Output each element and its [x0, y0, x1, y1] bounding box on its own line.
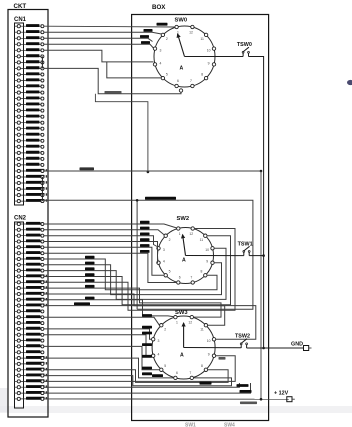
svg-text:TSW1: TSW1: [238, 241, 253, 247]
svg-text:10: 10: [205, 248, 209, 252]
connector CN2 pin 21: [15, 339, 44, 343]
box BOX outline: [132, 15, 269, 421]
connector CN1 pin 5: [15, 48, 44, 52]
connector CN2 pin 15: [15, 304, 48, 308]
wire CN1 pin3 to SW0: [44, 38, 153, 41]
wire CN1 pin2 to SW0 terminal 2: [44, 32, 162, 34]
connector CN2 pin 18: [15, 321, 44, 325]
svg-text:CN2: CN2: [14, 216, 27, 222]
svg-text:5: 5: [166, 73, 168, 77]
svg-text:7: 7: [190, 276, 192, 280]
connector CN2 pin 17: [15, 315, 44, 319]
svg-text:2: 2: [169, 238, 171, 242]
connector CN1 pin 4: [15, 42, 44, 46]
wire label: [80, 167, 95, 170]
connector CN1 pin 14: [15, 103, 44, 107]
wire CN2 pin6 to SW2 terminal 6: [44, 253, 177, 282]
svg-text:A: A: [180, 353, 184, 359]
connector CN2 outline: [15, 222, 24, 408]
wire label: [142, 326, 152, 329]
label A of SW3: [180, 353, 184, 359]
svg-text:1: 1: [179, 232, 181, 236]
wire label: [140, 238, 150, 241]
label SW0: [175, 18, 188, 24]
wire CN1 pin25 to +12V rail: [44, 170, 261, 172]
wire CN2 to SW2 terminal 8 wraparound: [44, 259, 217, 290]
wire label: [85, 279, 95, 282]
svg-text:TSW0: TSW0: [237, 42, 252, 48]
label A of SW2: [182, 258, 186, 264]
svg-text:12: 12: [189, 31, 193, 35]
svg-text:SW1: SW1: [185, 423, 196, 427]
connector CN2 pin 11: [15, 280, 48, 284]
junction at 147.9,171.9: [147, 171, 150, 174]
wire label: [140, 250, 150, 253]
wire label: [140, 227, 150, 230]
wire label: [74, 302, 90, 305]
connector CN2 pin 19: [15, 327, 44, 331]
wire label: [237, 384, 249, 387]
connector CN1 pin 20: [15, 139, 44, 143]
connector CN2 pin 30: [15, 391, 48, 395]
svg-text:2: 2: [166, 37, 168, 41]
wire CN2 pin1 to SW2 terminal 1: [44, 224, 177, 228]
wire label: [140, 233, 150, 236]
circuit block CKT outline: [8, 10, 48, 418]
svg-text:11: 11: [200, 37, 204, 41]
wire CN2 pin31 to +12V: [44, 398, 289, 400]
wire CN2 pin14 to SW3 terminal 1: [44, 300, 174, 317]
svg-text:6: 6: [177, 79, 179, 83]
wire label: [142, 355, 152, 358]
wire label: [140, 244, 150, 247]
svg-text:6: 6: [179, 276, 181, 280]
label BOX: [152, 4, 166, 11]
connector CN1 pin 29: [15, 193, 48, 197]
CN1 bus wire pins 6-8: [41, 56, 43, 68]
connector CN1 pin 27: [15, 181, 48, 185]
wire label: [200, 382, 212, 385]
svg-text:4: 4: [163, 260, 165, 264]
label CN1: [14, 17, 27, 23]
junction at 261,171.9: [260, 170, 263, 173]
wire CN2 pin22 to SW3 terminal 5: [44, 346, 160, 369]
wire label: [157, 23, 168, 26]
svg-text:TSW2: TSW2: [235, 334, 250, 340]
svg-text:5: 5: [164, 364, 166, 368]
junction +12V rail: [260, 398, 263, 401]
connector CN2 pin 9: [15, 269, 44, 273]
svg-text:11: 11: [200, 327, 204, 331]
connector CN1 pin 19: [15, 133, 44, 137]
wire label: [142, 343, 152, 346]
wire label: [85, 267, 95, 270]
connector CN1 pin 12: [15, 91, 44, 95]
toggle switch TSW0: [237, 42, 252, 56]
connector CN1 outline: [15, 23, 24, 205]
wire SW2 common to TSW1: [186, 255, 244, 257]
connector CN2 pin 27: [15, 374, 48, 378]
wire CN1 bus pins26-30 long: [44, 200, 253, 309]
vertical bus segment: [136, 200, 138, 309]
connector CN2 pin 24: [15, 356, 48, 360]
scan artifact band: [0, 406, 352, 413]
junction at 137.1,200.3: [136, 199, 139, 202]
junction TSW1 switch net: [262, 254, 265, 257]
connector CN2 pin 14: [15, 298, 48, 302]
wire SW0 common to TSW0: [185, 56, 244, 58]
svg-text:3: 3: [159, 48, 161, 52]
svg-text:SW3: SW3: [175, 310, 188, 316]
connector CN1 pin 16: [15, 115, 44, 119]
wire label: [140, 35, 149, 38]
connector CN2 pin 1: [15, 222, 44, 226]
connector CN1 pin 11: [15, 84, 44, 88]
wire CN1 pin5 to SW0 terminal 4: [44, 50, 153, 62]
svg-text:12: 12: [188, 321, 192, 325]
svg-text:A: A: [182, 258, 186, 264]
wire label: [240, 390, 252, 393]
wire CN2 pin15 to SW3 terminal 10: [44, 306, 256, 340]
label CN2: [14, 216, 27, 222]
svg-text:12: 12: [189, 232, 193, 236]
svg-text:8: 8: [201, 73, 203, 77]
label +12V: [274, 391, 289, 397]
wire CN2 pin26 to SW3 terminal 8: [44, 370, 228, 383]
wire label: [240, 402, 257, 405]
connector CN1 pin 10: [15, 78, 44, 82]
connector CN1 pin 9: [15, 72, 44, 76]
connector CN1 pin 3: [15, 36, 44, 40]
junction switch net at GND wire: [262, 347, 265, 350]
wire branch to SW0 terminal 5: [107, 62, 162, 78]
label A of SW0: [180, 66, 184, 72]
wire CN2 pin24 to SW3 terminal 6: [44, 358, 174, 378]
wire label: [145, 197, 176, 200]
connector CN2 pin 3: [15, 234, 44, 238]
stray blue mark: [347, 80, 352, 85]
wire label: [85, 297, 95, 300]
connector CN2 pin 5: [15, 245, 44, 249]
connector CN1 pin 18: [15, 127, 44, 131]
svg-text:SW4: SW4: [224, 423, 235, 427]
connector CN1 pin 21: [15, 145, 44, 149]
svg-text:+ 12V: + 12V: [274, 391, 289, 397]
+12V vertical rail: [260, 171, 262, 399]
wire CN2 pin13 to SW3 terminal 11: [44, 294, 225, 325]
svg-text:SW2: SW2: [177, 216, 190, 222]
wire CN2 pin5 to SW2 terminal 5: [44, 247, 164, 275]
connector CN2 pin 16: [15, 309, 44, 313]
wire TSW1 to switch net: [249, 255, 263, 257]
connector CN2 pin 8: [15, 263, 44, 267]
connector CN2 pin 20: [15, 333, 44, 337]
connector CN2 pin 13: [15, 292, 48, 296]
wire label: [85, 262, 95, 265]
svg-text:1: 1: [176, 321, 178, 325]
GND terminal: [304, 346, 312, 351]
rotary switch SW0: [153, 25, 215, 87]
wire CN2 pin2 to SW2 terminal 2: [44, 230, 164, 235]
svg-text:A: A: [180, 66, 184, 72]
svg-text:8: 8: [201, 364, 203, 368]
wire CN2 pin20 to SW3 terminal 4: [44, 335, 152, 356]
svg-text:4: 4: [159, 61, 161, 65]
connector CN1 pin 30: [15, 199, 48, 203]
connector CN2 pin 26: [15, 368, 48, 372]
wire CN2 pin12 to SW3 terminal 12: [44, 288, 221, 317]
faint text: [224, 423, 235, 427]
wire label: [142, 367, 152, 370]
svg-text:10: 10: [207, 48, 211, 52]
rotary switch SW3: [152, 315, 216, 379]
wire CN2 pin3 to SW2 terminal 3: [44, 236, 157, 247]
wire label: [142, 332, 152, 335]
connector CN1 pin 7: [15, 60, 44, 64]
connector CN2 pin 2: [15, 228, 44, 232]
wire CN1 pin4 to SW0 terminal 3: [44, 44, 153, 48]
wire CN2 pin19 to SW3 terminal 3: [44, 329, 152, 339]
svg-text:7: 7: [189, 371, 191, 375]
wire label: [152, 374, 163, 377]
connector CN1 pin 28: [15, 187, 48, 191]
toggle switch TSW2: [235, 334, 250, 348]
connector CN1 pin 24: [15, 163, 44, 167]
wire TSW0 to switch net: [249, 57, 264, 349]
svg-text:10: 10: [207, 339, 211, 343]
wire SW3 common to TSW2: [184, 347, 242, 349]
svg-text:BOX: BOX: [152, 4, 166, 11]
connector CN1 pin 13: [15, 97, 44, 101]
connector CN2 pin 25: [15, 362, 48, 366]
svg-text:3: 3: [158, 339, 160, 343]
wire CN2 pin29 stub: [44, 383, 240, 387]
connector CN1 pin 1: [15, 24, 44, 28]
label SW3: [175, 310, 188, 316]
connector CN2 pin 7: [15, 257, 44, 261]
wire CN2 to SW2 terminal 10 wraparound: [44, 248, 226, 299]
wire CN2 to SW2 terminal 11 wraparound: [44, 236, 231, 305]
connector CN1 pin 15: [15, 109, 44, 113]
rotary switch SW2: [157, 227, 214, 284]
svg-text:6: 6: [176, 371, 178, 375]
wire label: [140, 221, 150, 224]
svg-text:3: 3: [163, 248, 165, 252]
wire to +12V rail upper: [95, 94, 147, 172]
svg-text:GND: GND: [291, 342, 303, 348]
connector CN1 pin 8: [15, 66, 44, 70]
wire CN2 pin27 to SW3 terminal 7: [44, 376, 232, 386]
wire label: [141, 41, 150, 44]
svg-text:5: 5: [169, 270, 171, 274]
wire label: [85, 285, 95, 288]
connector CN2 pin 6: [15, 251, 44, 255]
wire label: [85, 256, 95, 259]
connector CN1 pin 17: [15, 121, 44, 125]
connector CN1 pin 22: [15, 151, 44, 155]
label CKT: [14, 3, 27, 10]
SW0 bottom terminal: [179, 89, 182, 92]
connector CN2 pin 10: [15, 274, 48, 278]
wire label: [105, 91, 122, 94]
wire CN1 bus pins6-8 to SW0 bottom: [44, 68, 181, 93]
CN1 bus wire pins 26-30: [41, 177, 43, 201]
wire CN2 to SW2 terminal 12 wraparound: [44, 229, 235, 311]
label SW2: [177, 216, 190, 222]
connector CN2 pin 12: [15, 286, 48, 290]
wire CN2 pin28 to SW3 terminal 9: [44, 356, 235, 382]
svg-text:4: 4: [158, 353, 160, 357]
wire label: [142, 372, 152, 375]
wire label: [144, 29, 153, 32]
svg-text:CN1: CN1: [14, 17, 27, 23]
svg-text:9: 9: [208, 61, 210, 65]
connector CN1 pin 2: [15, 30, 44, 34]
connector CN2 pin 28: [15, 379, 48, 383]
toggle switch TSW1: [238, 241, 253, 255]
connector CN2 pin 4: [15, 239, 44, 243]
connector CN1 pin 23: [15, 157, 44, 161]
wire label: [219, 357, 226, 360]
faint text: [185, 423, 196, 427]
svg-text:SW0: SW0: [175, 18, 188, 24]
wire CN2 pin30 wrap: [44, 383, 251, 393]
svg-text:9: 9: [206, 260, 208, 264]
label GND: [291, 342, 303, 348]
connector CN2 pin 22: [15, 344, 44, 348]
connector CN2 pin 31: [15, 397, 48, 401]
svg-text:7: 7: [190, 79, 192, 83]
wire TSW2 to GND: [247, 347, 304, 349]
wire CN1 pin1 to SW0 terminal 1: [44, 25, 175, 28]
svg-text:9: 9: [208, 353, 210, 357]
wire CN2 to SW2 terminal 9 wraparound: [44, 263, 222, 295]
svg-text:2: 2: [164, 327, 166, 331]
svg-text:CKT: CKT: [14, 3, 27, 10]
connector CN1 pin 26: [15, 175, 48, 179]
connector CN2 pin 23: [15, 350, 44, 354]
connector CN1 pin 25: [15, 169, 48, 173]
connector CN2 pin 29: [15, 385, 48, 389]
connector CN1 pin 6: [15, 54, 44, 58]
wire label: [142, 314, 152, 317]
wire CN2 pin4 to SW2 terminal 4: [44, 242, 158, 263]
+12V terminal: [287, 397, 295, 402]
svg-text:11: 11: [200, 238, 204, 242]
svg-text:8: 8: [200, 270, 202, 274]
wire CN2 pin17 to SW3 terminal 2: [44, 317, 160, 326]
wire label: [85, 273, 95, 276]
